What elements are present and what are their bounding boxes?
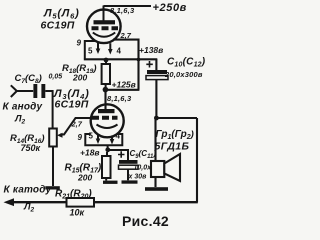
ground (speaker): [145, 187, 168, 191]
tube Л3 grid (dashed): [92, 116, 118, 120]
capacitor C9 (C11) 10,0x30в electrolytic: plus plate: [119, 160, 138, 164]
ground (R14): [45, 186, 60, 189]
wire: anode lead of Л3: [104, 89, 106, 110]
wire: R14 bottom lead: [52, 147, 54, 187]
junction node: R18 top on bus: [104, 58, 109, 63]
wire: right rail down: [196, 118, 198, 202]
wire: C7 to R14 top: [45, 91, 52, 129]
wire: anode lead of upper tube: [103, 6, 105, 21]
junction node +18в: [105, 147, 110, 152]
heater pin 4 of Л5 (arrow lead): [109, 43, 111, 50]
svg-text:6С19П: 6С19П: [41, 20, 75, 32]
capacitor C7 (C8) 0,05: [33, 84, 37, 98]
svg-text:5: 5: [88, 47, 93, 56]
capacitor C10 minus plate: [146, 76, 168, 80]
wire: speaker top lead: [154, 118, 156, 161]
heater pin 5 of Л3: [97, 135, 99, 140]
wire: R15 top lead: [106, 152, 108, 156]
wire: R18 top lead: [105, 60, 107, 64]
heater pin 5 of Л5 (arrow lead): [97, 43, 99, 50]
wire: feedback wire left of R21: [12, 201, 67, 203]
wire: grid of Л3 to R14 wiper (arrow): [60, 118, 91, 135]
wire: +125в node to cathode drop: [105, 89, 139, 91]
input terminal: К аноду Л2: [11, 85, 17, 97]
svg-text:+138в: +138в: [139, 45, 163, 55]
svg-text:2,7: 2,7: [120, 31, 132, 40]
svg-text:5: 5: [89, 132, 94, 141]
wire: grid lead of Л5 (pin 9) to cathode bus: [85, 41, 95, 59]
tube Л5 cathode arc: [93, 33, 115, 37]
tube Л5 (upper 6С19П) envelope: [87, 10, 121, 44]
svg-text:К катоду: К катоду: [4, 185, 52, 196]
resistor R18 (R19) 200: [102, 64, 110, 84]
svg-text:6С19П: 6С19П: [55, 99, 89, 111]
svg-text:+125в: +125в: [112, 80, 136, 90]
polarity + of C9: [118, 151, 125, 158]
svg-text:2,7: 2,7: [71, 120, 83, 129]
svg-text:Рис.42: Рис.42: [122, 213, 169, 229]
ground (C9): [122, 180, 138, 183]
wire: speaker bottom lead: [154, 177, 156, 187]
wire: C10 bottom lead down to speaker node: [155, 80, 157, 118]
svg-text:4: 4: [117, 47, 122, 56]
capacitor C10 (C12) 20,0x300в electrolytic: plus plate: [147, 70, 167, 74]
svg-text:C7(C8): C7(C8): [15, 73, 42, 85]
wire: cathode lead of Л5 (pins 2,7) going right then down to +125в node: [113, 40, 139, 90]
junction node +125в (anode of Л3): [103, 87, 109, 93]
junction at bus and cathode drop: [137, 58, 141, 62]
svg-text:9: 9: [77, 39, 82, 48]
wire: bus corner down to C10: [155, 59, 157, 71]
wire: R18 bottom lead: [105, 84, 107, 89]
svg-text:8,1,6,3: 8,1,6,3: [107, 94, 132, 103]
wire: C9 bottom lead: [127, 169, 129, 180]
wire: input to C7: [16, 90, 34, 92]
svg-text:0,05: 0,05: [49, 74, 63, 81]
wire: cathode stub to +18в node: [107, 145, 109, 149]
wire: +138в output bus: [84, 58, 157, 60]
loudspeaker Гр1 (Гр2) 5ГД1Б: [151, 161, 164, 177]
tube Л3 cathode arc: [97, 125, 118, 129]
wire: output node to right rail: [156, 117, 197, 119]
ground (R15): [103, 181, 118, 184]
svg-text:К аноду: К аноду: [3, 102, 43, 113]
capacitor C9 minus plate: [119, 165, 139, 169]
wire: +18в node to C9: [108, 150, 128, 160]
svg-text:5ГД1Б: 5ГД1Б: [155, 141, 190, 153]
polarity + of C10: [146, 61, 153, 68]
wire: cathode collector of Л3 (pins 2,7 box): [85, 134, 122, 145]
potentiometer R14 (R16) 750к: [49, 129, 57, 147]
svg-text:+18в: +18в: [80, 148, 100, 158]
heater pin 4 of Л3: [111, 136, 113, 141]
wire: +250V supply rail to anode of upper tube: [104, 5, 152, 7]
wire: feedback wire right of R21: [94, 201, 198, 203]
resistor R15 (R17) 200: [102, 156, 111, 178]
wire: R15 bottom lead: [105, 178, 107, 181]
tube Л3 envelope: [91, 104, 124, 137]
resistor R21 (R20) 10к: [67, 198, 95, 207]
junction node: output to speaker and feedback: [154, 116, 159, 121]
svg-text:х 30в: х 30в: [128, 174, 148, 181]
tube Л5 grid (dashed): [92, 26, 119, 30]
svg-text:750к: 750к: [21, 143, 41, 153]
svg-text:4: 4: [116, 132, 121, 141]
svg-text:20,0х300в: 20,0х300в: [164, 70, 203, 79]
feedback terminal: К катоду Л2 (arrow): [4, 198, 15, 206]
svg-text:10,0х: 10,0х: [134, 165, 153, 172]
svg-text:200: 200: [72, 73, 87, 83]
svg-text:200: 200: [77, 173, 92, 183]
svg-text:10к: 10к: [70, 208, 85, 218]
tube Л5 anode plate: [94, 20, 116, 24]
tube Л3 anode plate: [98, 109, 115, 113]
svg-text:9: 9: [78, 133, 83, 142]
svg-text:+250в: +250в: [153, 2, 187, 14]
